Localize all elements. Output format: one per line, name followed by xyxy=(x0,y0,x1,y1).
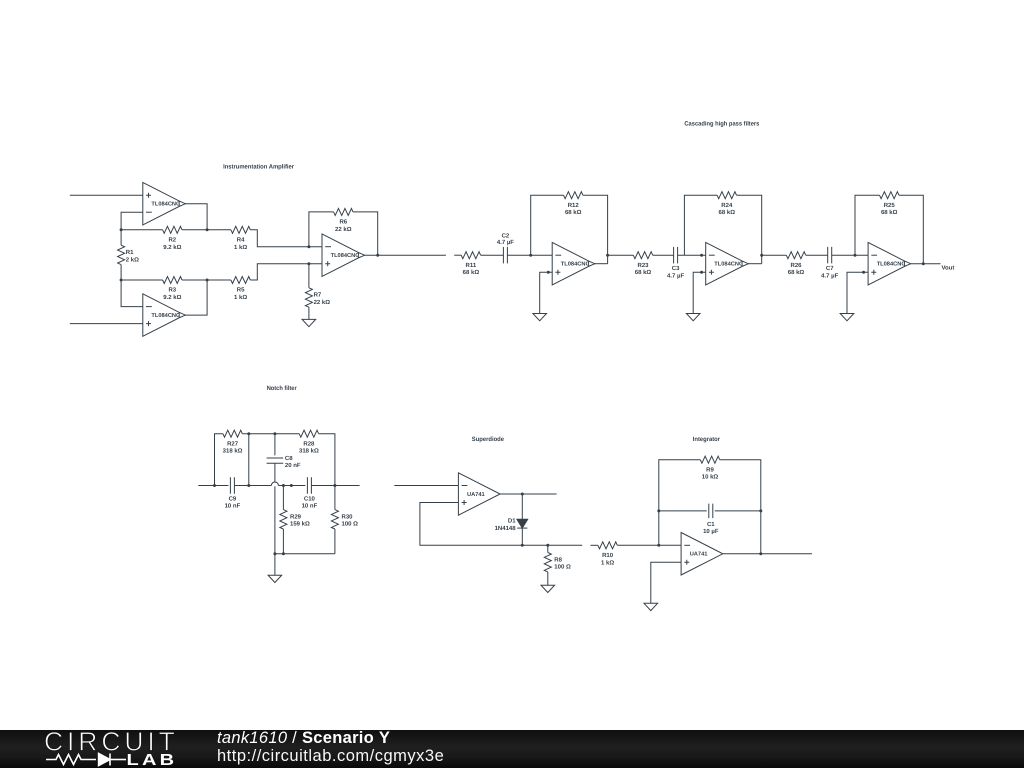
svg-text:10 µF: 10 µF xyxy=(703,528,719,535)
wire C to -in stage 1 xyxy=(507,254,552,256)
wire into C of stage 2 xyxy=(653,254,674,256)
wire R1 bottom node to R3 xyxy=(121,279,163,281)
junction stage 2 xyxy=(700,254,703,257)
op-amp TL084CNG (bottom-left, inverting top) xyxy=(143,294,186,337)
svg-text:R1: R1 xyxy=(126,249,134,256)
junction C1 left xyxy=(657,509,660,512)
wire R5 up to U3 +in xyxy=(250,264,322,280)
ground (integrator) xyxy=(644,603,658,610)
wire +in to ground stage 1 xyxy=(540,272,553,313)
label R7 22 kΩ xyxy=(314,292,331,306)
wire superdiode input xyxy=(394,485,458,487)
wire R28 to right riser xyxy=(319,434,335,486)
wire feedback left riser xyxy=(659,460,701,546)
wire feedback row to R8 xyxy=(522,544,582,546)
svg-text:TL084CNG: TL084CNG xyxy=(877,262,907,268)
svg-text:68 kΩ: 68 kΩ xyxy=(565,209,582,216)
label C2 4.7 µF xyxy=(497,233,514,246)
wire stage 2 out node right xyxy=(761,254,763,256)
junction U3 +in node xyxy=(307,262,310,265)
label C8 20 nF xyxy=(285,455,301,469)
resistor R28 xyxy=(299,430,318,437)
wire feedback up stage 3 xyxy=(855,195,880,255)
svg-text:318 kΩ: 318 kΩ xyxy=(223,448,243,455)
label C3 4.7 µF xyxy=(667,265,684,279)
ground stage 3 xyxy=(840,314,854,321)
svg-text:R26: R26 xyxy=(790,262,802,269)
resistor R4 xyxy=(231,226,250,233)
junction U3 out / R6 xyxy=(376,254,379,257)
svg-text:TL084CNG: TL084CNG xyxy=(331,253,361,259)
wire riser to top row xyxy=(215,434,223,486)
wire R8 to ground xyxy=(547,572,549,585)
wire feedback down stage 2 xyxy=(737,195,762,264)
wire U1 output down to R2 row xyxy=(185,204,208,230)
wire HPF input xyxy=(454,254,461,256)
resistor R1 xyxy=(118,245,125,264)
wire C9 to hop xyxy=(234,485,271,487)
resistor R10 xyxy=(598,542,617,549)
capacitor C1 xyxy=(709,504,713,518)
label R8 100 Ω xyxy=(554,556,571,570)
svg-text:9.2 kΩ: 9.2 kΩ xyxy=(163,244,181,251)
junction stage 1 xyxy=(547,271,550,274)
wire output stage 3 xyxy=(910,263,941,265)
svg-text:9.2 kΩ: 9.2 kΩ xyxy=(163,294,181,301)
svg-text:R29: R29 xyxy=(290,514,302,521)
junction -in / feedback xyxy=(657,544,660,547)
op-amp UA741 (superdiode) xyxy=(458,473,500,515)
wire into C of stage 3 xyxy=(806,254,828,256)
svg-text:R28: R28 xyxy=(303,440,315,447)
junction stage 2 xyxy=(700,271,703,274)
label R24 68 kΩ xyxy=(719,202,736,216)
label R10 1 kΩ xyxy=(601,552,614,566)
svg-text:C2: C2 xyxy=(502,233,510,240)
wire stage 1 out node right xyxy=(607,254,609,256)
svg-text:C7: C7 xyxy=(826,265,834,272)
svg-text:22 kΩ: 22 kΩ xyxy=(335,226,352,233)
wire R29 bottom lead xyxy=(282,529,284,554)
svg-text:R27: R27 xyxy=(227,440,239,447)
wire output stage 2 xyxy=(747,263,761,265)
svg-text:R8: R8 xyxy=(554,556,562,563)
label R12 68 kΩ xyxy=(565,202,582,216)
svg-text:UA741: UA741 xyxy=(690,552,708,558)
svg-text:Integrator: Integrator xyxy=(693,436,721,443)
svg-text:Superdiode: Superdiode xyxy=(472,436,505,443)
wire R1 top node to R2 xyxy=(121,229,163,231)
svg-text:318 kΩ: 318 kΩ xyxy=(299,448,319,455)
svg-text:4.7 µF: 4.7 µF xyxy=(497,239,514,246)
svg-text:100 Ω: 100 Ω xyxy=(554,564,571,571)
wire U3 output xyxy=(364,254,446,256)
wire U2 -in to R1 bottom node xyxy=(121,280,143,307)
footer url text xyxy=(217,748,444,765)
ground stage 1 xyxy=(533,314,547,321)
wire C8 top lead xyxy=(274,434,276,456)
svg-text:Instrumentation Amplifier: Instrumentation Amplifier xyxy=(223,163,295,170)
junction bottom / C8 branch xyxy=(273,552,276,555)
wire R3 to R5 xyxy=(182,279,231,281)
svg-text:20 nF: 20 nF xyxy=(285,462,301,469)
junction R29 top xyxy=(282,484,285,487)
wire C8 bottom lead to hop xyxy=(274,463,276,482)
capacitor C2 xyxy=(503,247,507,264)
wire to U2 +in xyxy=(70,323,143,325)
wire notch input xyxy=(198,485,228,487)
wire to notch ground xyxy=(274,554,276,575)
resistor R23 xyxy=(633,252,652,259)
wire R10 to -in xyxy=(617,544,681,546)
wire R30 bottom lead xyxy=(334,529,336,554)
junction output / D1 xyxy=(521,493,524,496)
wire C1 right lead xyxy=(715,510,761,512)
svg-text:1 kΩ: 1 kΩ xyxy=(601,559,614,566)
ground stage 2 xyxy=(686,314,700,321)
junction U1 out / R2-R4 xyxy=(206,228,209,231)
op-amp TL084CNG (top-left, non-inverting top) xyxy=(143,182,186,225)
junction D1 / feedback row xyxy=(521,544,524,547)
wire +in feedback xyxy=(420,503,522,546)
svg-text:R5: R5 xyxy=(237,287,245,294)
wire C to -in stage 3 xyxy=(832,254,868,256)
label R1 2 kΩ xyxy=(126,249,139,263)
junction stage 3 xyxy=(854,254,857,257)
wire C1 left lead xyxy=(659,510,707,512)
op-amp TL084CNG stage 1 xyxy=(552,242,595,285)
junction stage 3 xyxy=(922,262,925,265)
junction notch input riser xyxy=(213,484,216,487)
wire mid riser xyxy=(248,434,250,486)
label R9 10 kΩ xyxy=(702,466,719,480)
junction R1 top / R2 xyxy=(120,228,123,231)
wire feedback up stage 1 xyxy=(531,195,564,255)
wire +in node down to R7 xyxy=(308,264,310,288)
svg-text:C1: C1 xyxy=(707,521,715,528)
svg-text:R25: R25 xyxy=(884,202,896,209)
capacitor C8 xyxy=(267,458,284,463)
svg-text:1 kΩ: 1 kΩ xyxy=(234,294,247,301)
resistor R12 xyxy=(564,192,583,199)
ground (superdiode) xyxy=(541,585,555,592)
wire R2 to R4 xyxy=(182,229,231,231)
svg-text:R30: R30 xyxy=(342,514,354,521)
svg-text:D1: D1 xyxy=(508,518,516,525)
label R26 68 kΩ xyxy=(788,262,805,276)
resistor R5 xyxy=(231,277,250,284)
label C10 10 nF xyxy=(302,495,318,509)
junction U3 -in node xyxy=(307,245,310,248)
op-amp TL084CNG stage 2 xyxy=(706,242,749,285)
resistor R7 xyxy=(305,288,312,307)
junction stage 3 xyxy=(862,271,865,274)
wire R9 to right riser xyxy=(720,460,761,554)
svg-text:68 kΩ: 68 kΩ xyxy=(881,209,898,216)
resistor R11 xyxy=(461,252,480,259)
svg-text:R23: R23 xyxy=(637,262,649,269)
svg-text:R7: R7 xyxy=(314,292,322,299)
svg-text:68 kΩ: 68 kΩ xyxy=(719,209,736,216)
wire +in to ground stage 2 xyxy=(693,272,706,313)
wire integrator input xyxy=(591,544,598,546)
svg-text:10 nF: 10 nF xyxy=(225,503,241,510)
wire R30 top lead xyxy=(334,486,336,510)
diode D1 xyxy=(517,519,528,528)
svg-text:R12: R12 xyxy=(568,202,580,209)
svg-text:10 nF: 10 nF xyxy=(302,503,318,510)
svg-text:2 kΩ: 2 kΩ xyxy=(126,256,139,263)
wire to U1 +in xyxy=(70,194,143,196)
wire +in to ground stage 3 xyxy=(847,272,868,313)
ground (inst amp) xyxy=(302,319,316,326)
label R30 100 Ω xyxy=(342,514,359,528)
footer bar xyxy=(0,730,1024,768)
label R28 318 kΩ xyxy=(299,440,319,454)
svg-text:C9: C9 xyxy=(229,495,237,502)
svg-text:R24: R24 xyxy=(721,202,733,209)
svg-text:100 Ω: 100 Ω xyxy=(342,521,359,528)
junction stage 1 xyxy=(529,254,532,257)
label R2 9.2 kΩ xyxy=(163,237,181,251)
svg-text:UA741: UA741 xyxy=(467,492,485,498)
svg-text:R10: R10 xyxy=(602,552,614,559)
junction output / feedback xyxy=(759,552,762,555)
label R6 22 kΩ xyxy=(335,219,352,233)
wire R7 to ground xyxy=(308,307,310,319)
svg-text:4.7 µF: 4.7 µF xyxy=(667,272,684,279)
junction right riser / main line xyxy=(333,484,336,487)
wire hop over main line xyxy=(271,482,278,485)
label D1 1N4148 xyxy=(495,518,517,532)
svg-text:C3: C3 xyxy=(672,265,680,272)
label C1 10 µF xyxy=(703,521,719,535)
wire D1 anode lead xyxy=(521,494,523,519)
wire C8 continues below hop xyxy=(274,486,276,554)
svg-text:68 kΩ: 68 kΩ xyxy=(463,269,480,276)
wire stage2 to R26 xyxy=(762,254,787,256)
svg-text:R11: R11 xyxy=(466,262,477,269)
wire R27 to R28 xyxy=(242,433,299,435)
svg-text:R2: R2 xyxy=(168,237,176,244)
label R3 9.2 kΩ xyxy=(163,287,181,301)
wire D1 cathode lead xyxy=(521,528,523,545)
svg-text:Vout: Vout xyxy=(942,265,955,272)
resistor R25 xyxy=(880,192,899,199)
svg-text:LAB: LAB xyxy=(127,752,178,768)
junction top row / C8 xyxy=(273,432,276,435)
junction C1 right xyxy=(759,509,762,512)
wire hop to C10 xyxy=(278,485,305,487)
wire R1 top lead xyxy=(120,230,122,245)
label R11 68 kΩ xyxy=(463,262,480,276)
junction top row / mid riser xyxy=(247,432,250,435)
svg-text:C8: C8 xyxy=(285,455,293,462)
svg-text:R3: R3 xyxy=(168,287,176,294)
label R29 159 kΩ xyxy=(290,514,310,528)
resistor R24 xyxy=(717,192,736,199)
svg-text:Notch filter: Notch filter xyxy=(267,385,298,392)
label R4 1 kΩ xyxy=(234,237,247,251)
label R23 68 kΩ xyxy=(635,262,652,276)
svg-text:4.7 µF: 4.7 µF xyxy=(821,272,838,279)
footer title text xyxy=(217,730,390,747)
wire into C of stage 1 xyxy=(481,254,504,256)
resistor R8 xyxy=(544,553,551,572)
label C7 4.7 µF xyxy=(821,265,838,279)
junction stage 1 xyxy=(606,254,609,257)
capacitor C7 xyxy=(828,247,832,264)
svg-text:TL084CNG: TL084CNG xyxy=(714,262,744,268)
svg-text:R4: R4 xyxy=(237,237,245,244)
wire R8 top lead xyxy=(547,545,549,552)
wire stage1 to R23 xyxy=(608,254,634,256)
resistor R3 xyxy=(163,277,182,284)
CircuitLab logo schematic squiggle (resistor + diode) xyxy=(46,754,126,766)
wire output stage 1 xyxy=(594,263,608,265)
svg-text:C10: C10 xyxy=(304,495,316,502)
junction wire ends xyxy=(290,484,293,487)
wire feedback down stage 1 xyxy=(583,195,608,264)
svg-text:TL084CNG: TL084CNG xyxy=(151,313,181,319)
capacitor C10 xyxy=(307,477,311,494)
wire U2 output up to R3 row xyxy=(185,280,208,315)
wire R1 bottom lead xyxy=(120,265,122,280)
op-amp UA741 (integrator) xyxy=(681,533,723,576)
wire UA741 output xyxy=(500,493,556,495)
label R27 318 kΩ xyxy=(223,440,243,454)
wire R29 top lead xyxy=(282,486,284,510)
svg-text:Cascading high pass filters: Cascading high pass filters xyxy=(684,121,760,128)
op-amp TL084CNG stage 3 xyxy=(868,242,911,285)
wire R4 down to U3 -in xyxy=(250,230,322,247)
wire feedback up stage 2 xyxy=(684,195,717,255)
svg-text:1 kΩ: 1 kΩ xyxy=(234,244,247,251)
label R5 1 kΩ xyxy=(234,287,247,301)
wire integrator output xyxy=(723,553,812,555)
svg-text:68 kΩ: 68 kΩ xyxy=(788,269,805,276)
wire feedback down stage 3 xyxy=(899,195,923,264)
resistor R6 xyxy=(334,208,353,215)
junction mid riser / main line xyxy=(247,484,250,487)
label R25 68 kΩ xyxy=(881,202,898,216)
capacitor C3 xyxy=(674,247,678,264)
resistor R9 xyxy=(700,456,719,463)
resistor R2 xyxy=(163,226,182,233)
capacitor C9 xyxy=(230,477,234,494)
wire -in node up to R6 xyxy=(309,212,334,247)
svg-text:68 kΩ: 68 kΩ xyxy=(635,269,652,276)
svg-text:TL084CNG: TL084CNG xyxy=(561,262,591,268)
resistor R26 xyxy=(786,252,805,259)
resistor R27 xyxy=(223,430,242,437)
junction R8 top xyxy=(546,544,549,547)
svg-text:R9: R9 xyxy=(706,466,714,473)
svg-text:10 kΩ: 10 kΩ xyxy=(702,474,719,481)
op-amp TL084CNG (instrumentation output) xyxy=(322,234,365,277)
junction bottom / R29 xyxy=(282,552,285,555)
junction U2 out / R3-R5 xyxy=(206,279,209,282)
resistor R29 xyxy=(280,510,287,529)
resistor R30 xyxy=(331,510,338,529)
wire notch bottom row xyxy=(275,553,335,555)
label C9 10 nF xyxy=(225,495,241,509)
ground (notch) xyxy=(268,575,282,582)
wire C to -in stage 2 xyxy=(678,254,706,256)
svg-text:159 kΩ: 159 kΩ xyxy=(290,521,310,528)
wire R6 down to U3 output xyxy=(353,212,378,255)
svg-text:1N4148: 1N4148 xyxy=(495,525,517,532)
junction stage 2 xyxy=(760,254,763,257)
wire C10 to right riser xyxy=(311,485,359,487)
svg-text:R6: R6 xyxy=(339,219,347,226)
wire +in to ground xyxy=(651,562,681,603)
svg-text:22 kΩ: 22 kΩ xyxy=(314,299,331,306)
junction R1 bottom / R3 xyxy=(120,279,123,282)
svg-text:TL084CNG: TL084CNG xyxy=(151,202,181,208)
wire U1 -in to R1 top node xyxy=(121,212,143,230)
